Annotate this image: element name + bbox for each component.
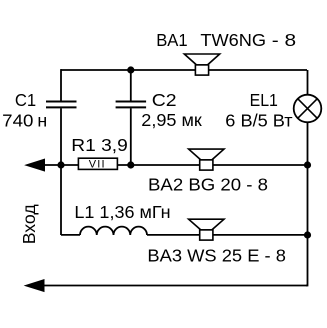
label C2 value 2,95 mk	[141, 110, 202, 130]
label C2	[152, 90, 177, 110]
wire L1 row left stub	[61, 234, 80, 236]
speaker BA2	[189, 149, 224, 170]
wire bottom horizontal	[28, 285, 308, 287]
wire right vertical lower segment	[306, 122, 308, 286]
label EL1 value 6 V/5 W	[225, 111, 292, 131]
capacitor C1	[46, 102, 77, 108]
label L1 1,36 mGn	[74, 202, 170, 222]
node junction dot R1 row right	[304, 161, 311, 168]
svg-text:C1: C1	[15, 90, 36, 110]
wire right vertical upper segment	[307, 70, 309, 96]
wire mid vertical lower segment	[130, 108, 132, 165]
node junction dot R1 row left	[57, 161, 64, 168]
svg-text:BA2 BG 20 - 8: BA2 BG 20 - 8	[148, 175, 268, 195]
svg-text:- 8: - 8	[272, 30, 297, 50]
svg-text:740: 740	[2, 110, 33, 130]
inductor L1	[80, 227, 147, 235]
svg-text:2,95 мк: 2,95 мк	[141, 110, 202, 130]
svg-text:BA3 WS 25 E - 8: BA3 WS 25 E - 8	[147, 245, 286, 265]
wire mid vertical upper segment	[130, 69, 132, 101]
wire left vertical upper segment	[60, 69, 62, 101]
wire top horizontal bus	[61, 69, 307, 71]
speaker BA1	[184, 54, 219, 75]
label C1 value 740 n	[2, 110, 47, 130]
node junction dot L1 row right	[304, 231, 311, 238]
node junction dot R1 row mid	[127, 161, 134, 168]
input terminal arrow R1 row	[26, 159, 45, 171]
wire L1 row right segment	[147, 234, 307, 236]
label Vhod (input) vertical	[19, 204, 39, 244]
speaker BA3	[189, 219, 224, 240]
svg-text:BA1: BA1	[156, 30, 188, 50]
lamp EL1	[294, 95, 322, 123]
svg-text:R1 3,9: R1 3,9	[71, 135, 128, 155]
node junction dot top mid	[127, 66, 134, 73]
label EL1	[250, 90, 278, 110]
wire R1 row horizontal	[30, 164, 307, 166]
svg-text:6 В/5 Вт: 6 В/5 Вт	[225, 111, 292, 131]
label R1 3,9	[71, 135, 128, 155]
capacitor C2	[116, 102, 147, 108]
svg-text:L1 1,36 мГн: L1 1,36 мГн	[74, 202, 170, 222]
svg-text:C2: C2	[152, 90, 177, 110]
svg-text:VII: VII	[89, 158, 106, 170]
label C1	[15, 90, 36, 110]
resistor R1 power mark VII	[89, 158, 106, 170]
svg-text:EL1: EL1	[250, 90, 278, 110]
svg-text:TW6NG: TW6NG	[200, 30, 266, 50]
wire left vertical lower segment	[60, 108, 62, 235]
svg-text:н: н	[37, 110, 47, 130]
label BA3 WS 25 E - 8	[147, 245, 286, 265]
label BA1 TW 6NG - 8	[156, 30, 296, 50]
svg-text:Вход: Вход	[19, 204, 39, 244]
resistor R1 body	[78, 158, 117, 169]
input terminal arrow bottom row	[25, 280, 44, 292]
label BA2 BG 20 - 8	[148, 175, 268, 195]
